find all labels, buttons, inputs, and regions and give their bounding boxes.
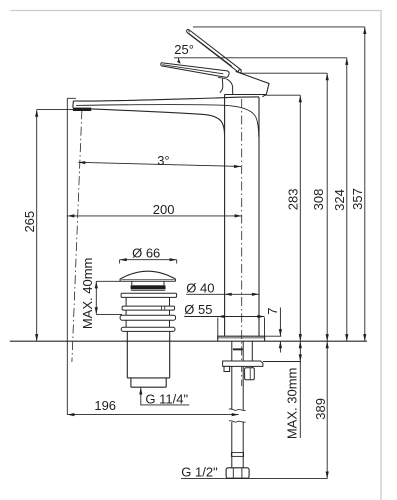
drain body — [127, 331, 169, 378]
svg-text:G 11/4": G 11/4" — [145, 391, 188, 406]
dim 200 — [67, 215, 241, 217]
dim o66 — [120, 259, 177, 261]
svg-text:389: 389 — [313, 398, 328, 420]
ext 283 — [265, 94, 300, 96]
7 dim outside arrows — [279, 329, 282, 336]
faucet centerline — [241, 99, 243, 386]
dim 324 — [346, 58, 348, 341]
pipe break marks — [229, 409, 246, 411]
mounting nut — [245, 368, 255, 380]
svg-text:MAX. 40mm: MAX. 40mm — [80, 258, 95, 330]
supply pipe upper — [232, 341, 243, 410]
265 — [35, 110, 38, 117]
raised lever (25 deg) — [187, 32, 239, 72]
washer ref — [263, 361, 301, 363]
disc 3 — [120, 315, 175, 320]
25 deg arc arrow — [177, 60, 181, 64]
o66 — [120, 258, 127, 261]
svg-text:357: 357 — [350, 188, 365, 210]
bottom ext — [181, 478, 327, 480]
svg-text:265: 265 — [22, 211, 37, 233]
svg-text:Ø 55: Ø 55 — [184, 302, 212, 317]
svg-text:283: 283 — [286, 189, 301, 211]
dim o55 — [184, 316, 264, 318]
G 1 1/4 — [139, 387, 142, 394]
spout bottom edge — [76, 108, 225, 134]
ext 324 / 25deg underline — [174, 57, 347, 59]
389 — [326, 341, 329, 348]
seal band dark — [131, 285, 166, 289]
spout tip face — [72, 101, 75, 108]
aerator dark block — [73, 108, 91, 111]
svg-text:7: 7 — [265, 308, 280, 315]
disc 1 — [121, 293, 177, 297]
spout inner line — [76, 105, 259, 137]
tailpiece — [131, 378, 166, 387]
spout axis dash-dot (3 deg) — [72, 110, 82, 362]
dim 7 — [279, 308, 281, 353]
base plate — [218, 336, 265, 341]
dome cap — [120, 271, 175, 281]
dim 308 — [326, 73, 328, 341]
max40 — [95, 281, 98, 288]
svg-text:Ø 66: Ø 66 — [132, 246, 160, 261]
head block — [224, 94, 266, 96]
countertop deck line — [10, 340, 367, 342]
200 — [67, 214, 74, 217]
dim 265 — [36, 110, 38, 342]
G 1 1/4 leader — [141, 387, 189, 405]
spout top edge — [73, 97, 259, 101]
o40 — [225, 293, 232, 296]
max40 dim — [95, 281, 97, 314]
max30 — [299, 341, 302, 348]
svg-text:308: 308 — [311, 189, 326, 211]
dim 283 — [299, 95, 301, 341]
neck under lever — [220, 79, 223, 93]
196 — [67, 413, 74, 416]
cap neck — [132, 281, 164, 285]
thread band — [233, 348, 243, 350]
25 deg arc — [178, 58, 180, 63]
ext 308 — [240, 72, 327, 74]
svg-text:MAX. 30mm: MAX. 30mm — [284, 368, 299, 440]
ext 357 — [193, 26, 365, 28]
dim 3deg — [78, 162, 241, 166]
up arrows at top ext lines — [363, 27, 366, 34]
faucet column — [224, 95, 226, 337]
horizontal lever — [161, 63, 229, 78]
disc 2 — [122, 306, 174, 310]
3 deg — [78, 161, 85, 164]
pivot circle — [238, 70, 241, 73]
hex end — [226, 468, 249, 478]
dim 196 — [67, 414, 239, 416]
washer tab — [224, 366, 230, 371]
svg-text:G 1/2": G 1/2" — [181, 465, 218, 480]
hose band — [231, 453, 243, 457]
dim 389 — [326, 341, 328, 478]
o55 — [218, 315, 225, 318]
svg-text:196: 196 — [94, 398, 116, 413]
down arrows at deck — [363, 334, 366, 341]
o55 ext — [218, 318, 265, 337]
svg-text:200: 200 — [153, 202, 175, 217]
left vertical — [66, 98, 68, 414]
dim o40 — [186, 293, 259, 295]
svg-text:25°: 25° — [174, 42, 194, 57]
svg-text:324: 324 — [332, 189, 347, 211]
dim 357 — [364, 27, 366, 341]
svg-text:3°: 3° — [157, 153, 169, 168]
horseshoe washer — [223, 361, 263, 366]
svg-text:Ø 40: Ø 40 — [186, 280, 214, 295]
dim max30 — [299, 341, 301, 438]
thin ring — [121, 327, 175, 331]
mounting stud — [251, 341, 253, 368]
